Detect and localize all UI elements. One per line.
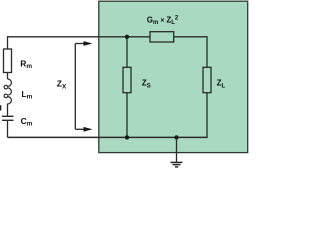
capacitor Cm plate 1 xyxy=(2,115,14,117)
wire bottom rail xyxy=(8,136,208,138)
wire left branch top xyxy=(7,36,9,49)
node dot top xyxy=(125,35,129,39)
capacitor Cm plate 2 xyxy=(2,119,14,121)
ground xyxy=(176,137,178,162)
wire Rm to Lm xyxy=(7,73,9,80)
port bracket ZX xyxy=(74,44,76,130)
wire ZL branch lower xyxy=(206,93,208,138)
left edge tick xyxy=(0,105,1,110)
resistor ZL xyxy=(203,67,211,92)
node dot ground junction xyxy=(174,135,178,139)
wire ZL branch upper xyxy=(206,37,208,68)
ZX bottom arrow xyxy=(75,128,84,130)
node dot bottom left xyxy=(125,135,129,139)
wire ZS branch lower xyxy=(126,93,128,138)
wire ZS branch upper xyxy=(126,37,128,68)
ZX top arrow xyxy=(75,43,84,45)
resistor Gm x ZL^2 xyxy=(150,32,174,42)
inductor Lm xyxy=(4,79,11,104)
wire Lm to Cm xyxy=(7,104,9,116)
green network panel xyxy=(99,1,248,152)
resistor ZS xyxy=(123,67,131,92)
wire top rail right of Gm resistor xyxy=(174,36,208,38)
resistor Rm xyxy=(4,49,12,73)
wire Cm to bottom rail xyxy=(7,121,9,137)
wire top rail xyxy=(8,36,151,38)
